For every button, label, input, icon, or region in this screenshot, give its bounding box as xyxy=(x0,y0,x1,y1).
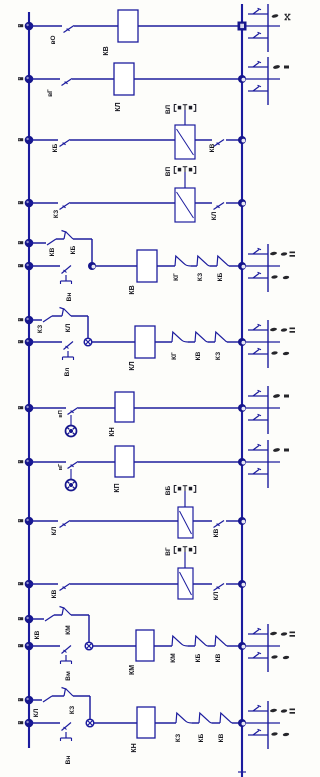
limit switch VL actuator row xyxy=(174,105,195,126)
svg-text:КМ: КМ xyxy=(129,665,136,675)
contact BG rung2 xyxy=(62,79,73,86)
svg-text:вГ: вГ xyxy=(58,463,64,470)
wire rung11 right xyxy=(227,645,242,647)
svg-text:КВ: КВ xyxy=(49,247,56,256)
wire xyxy=(188,341,195,343)
net label 11a xyxy=(18,617,23,620)
svg-text:КЛ: КЛ xyxy=(211,211,218,220)
relay coil KV2 xyxy=(137,250,157,282)
svg-text:Вм: Вм xyxy=(65,671,72,681)
wire xyxy=(192,722,199,724)
node 1 on right bus xyxy=(238,22,247,31)
svg-text:ВЛ: ВЛ xyxy=(165,105,172,115)
svg-text:КБ: КБ xyxy=(70,245,77,254)
node 7 on right bus xyxy=(238,404,246,412)
wire rung4 left xyxy=(29,202,58,204)
wire rung6 main left xyxy=(29,341,62,343)
wire rung6 right xyxy=(227,341,242,343)
svg-text:КГ: КГ xyxy=(173,273,180,281)
wire xyxy=(210,265,217,267)
node 10 on right bus xyxy=(238,580,246,588)
net label 4 xyxy=(18,201,23,204)
junction node rung12 xyxy=(86,719,94,727)
node 1 on left bus xyxy=(25,22,34,31)
node 6b on left bus xyxy=(25,338,34,347)
svg-text:КВ: КВ xyxy=(213,528,220,537)
relay coil KP xyxy=(115,446,134,477)
svg-text:КЗ: КЗ xyxy=(215,352,222,360)
drive switch contact vP rung7 xyxy=(68,408,79,415)
relay coil KN2 xyxy=(137,707,155,738)
wire rung5 branch start xyxy=(29,242,46,244)
interlock contact KV rung12 xyxy=(220,713,232,723)
wire rung12 branch start xyxy=(29,699,42,701)
wire rung2 left xyxy=(29,78,60,80)
stop pushbutton rung5 xyxy=(61,266,72,285)
switch contact column S12 xyxy=(246,701,295,749)
wire rung12 branch to corner xyxy=(73,695,90,697)
wire rung8 mid xyxy=(78,461,115,463)
wire rung6 branch drop xyxy=(87,316,89,342)
contact KV rung10 xyxy=(60,584,71,591)
wire xyxy=(208,645,215,647)
net label 1 xyxy=(18,24,23,27)
svg-text:КЛ: КЛ xyxy=(213,591,220,600)
stop pushbutton rung12 xyxy=(61,723,72,742)
relay coil KL xyxy=(114,63,134,95)
electromagnet VG xyxy=(178,568,193,599)
wire rung5 main left xyxy=(29,265,60,267)
node 5a on left bus xyxy=(25,239,34,248)
switch contact column S11 xyxy=(246,624,295,672)
wire rung6 branch start xyxy=(29,319,42,321)
interlock contact KZ rung5 xyxy=(197,256,210,266)
wire rung10 right xyxy=(226,583,242,585)
node 10 on left bus xyxy=(25,580,34,589)
wire rung3 after box xyxy=(195,139,212,141)
svg-text:КВ: КВ xyxy=(129,285,136,294)
interlock contact KV rung6 xyxy=(195,332,208,342)
left power bus L1 xyxy=(28,12,30,748)
node 8 on right bus xyxy=(238,458,246,466)
wire rung4 after box xyxy=(195,202,212,204)
svg-text:КВ: КВ xyxy=(51,589,58,598)
junction node rung5 xyxy=(88,262,96,270)
wire rung2 right xyxy=(134,78,242,80)
wire rung9 after box xyxy=(193,520,212,522)
node 6 on right bus xyxy=(238,338,246,346)
seal-in contact KV rung5 xyxy=(47,239,56,245)
node 7 on left bus xyxy=(25,404,34,413)
svg-text:КП: КП xyxy=(114,483,121,492)
interlock contact KZ2 rung6 xyxy=(215,332,227,342)
wire xyxy=(188,645,195,647)
wire rung10 after box xyxy=(193,583,212,585)
net label 7 xyxy=(18,406,23,409)
wire rung3 right xyxy=(226,139,242,141)
node 2 on right bus xyxy=(238,75,246,83)
wire rung9 right xyxy=(226,520,242,522)
net label 10 xyxy=(18,582,23,585)
contact BO rung1 xyxy=(64,26,75,33)
interlock contact KV2 rung11 xyxy=(215,636,227,646)
net label 11b xyxy=(18,644,23,647)
contact KZ rung4 xyxy=(60,203,71,210)
wire rung10 left xyxy=(29,583,58,585)
node 9 on left bus xyxy=(25,517,34,526)
drive wheel rung8 xyxy=(66,469,77,491)
wire rung6 to interlocks xyxy=(155,341,172,343)
svg-text:вГ: вГ xyxy=(47,89,54,97)
node 11b on left bus xyxy=(25,642,34,651)
interlock contact KB2 rung5 xyxy=(217,256,229,266)
svg-text:КБ: КБ xyxy=(198,733,205,742)
net label 12a xyxy=(18,698,23,701)
wire rung6 branch to corner xyxy=(71,315,88,317)
relay coil KN xyxy=(115,392,134,422)
wire rung7 right xyxy=(134,407,242,409)
seal-in contact KV rung11 xyxy=(45,615,54,621)
node 12a on left bus xyxy=(25,696,34,705)
relay coil KM xyxy=(136,630,154,661)
contact KL rung9 xyxy=(60,521,71,528)
node 12 on right bus xyxy=(238,719,246,727)
svg-text:КБ: КБ xyxy=(52,143,59,152)
relay coil KL2 xyxy=(135,326,155,358)
svg-text:КН: КН xyxy=(109,427,116,436)
node 5b on left bus xyxy=(25,262,34,271)
svg-text:КГ: КГ xyxy=(171,352,178,360)
svg-text:КВ: КВ xyxy=(103,46,110,55)
junction node rung6 xyxy=(84,338,92,346)
node 3 on left bus xyxy=(25,136,34,145)
right bus bottom tick xyxy=(238,771,246,773)
wire rung3 left xyxy=(29,139,58,141)
wire rung12 branch drop xyxy=(89,696,91,723)
switch contact column S2 xyxy=(246,57,289,105)
wire rung6 to coil xyxy=(92,341,135,343)
interlock contact KZ rung12 xyxy=(176,713,192,723)
svg-text:КВ: КВ xyxy=(218,733,225,742)
switch contact column S6 xyxy=(246,320,295,368)
wire rung5 branch to corner xyxy=(73,238,92,240)
wire rung5 to coil xyxy=(96,265,137,267)
svg-text:КН: КН xyxy=(131,743,138,752)
seal-in contact KZ rung6 xyxy=(43,316,52,322)
wire rung11 branch drop xyxy=(88,615,90,646)
net label 2 xyxy=(18,77,23,80)
electromagnet VP xyxy=(175,188,195,222)
junction node rung11 xyxy=(85,642,93,650)
net label 9 xyxy=(18,519,23,522)
svg-text:КВ: КВ xyxy=(215,653,222,662)
svg-text:КБ: КБ xyxy=(195,653,202,662)
wire xyxy=(191,265,197,267)
wire rung11 branch to corner xyxy=(71,614,89,616)
node 4 on left bus xyxy=(25,199,34,208)
node 12b on left bus xyxy=(25,719,34,728)
right power bus N xyxy=(241,4,243,777)
svg-text:КЛ: КЛ xyxy=(115,102,122,111)
contact KZ rung12 branch xyxy=(62,688,74,697)
wire rung12 branch mid xyxy=(52,695,64,697)
svg-text:Вн: Вн xyxy=(65,756,72,765)
node 4 on right bus xyxy=(238,199,246,207)
svg-text:КЗ: КЗ xyxy=(53,210,60,218)
svg-text:Вн: Вн xyxy=(66,293,73,302)
drive wheel rung7 xyxy=(66,415,77,437)
limit switch VP actuator row xyxy=(174,167,195,189)
node 5 on right bus xyxy=(238,262,246,270)
svg-text:КЗ: КЗ xyxy=(175,734,182,742)
interlock contact KB rung12 xyxy=(199,713,212,723)
wire rung7 mid xyxy=(78,407,115,409)
wire rung8 left xyxy=(29,461,66,463)
wire rung2 mid xyxy=(72,78,114,80)
svg-text:КЛ: КЛ xyxy=(65,323,72,332)
contact KB rung3 xyxy=(60,140,71,147)
wire rung1 left xyxy=(29,25,62,27)
svg-text:КБ: КБ xyxy=(217,272,224,281)
switch contact column S8 xyxy=(246,440,289,488)
interlock contact KB rung11 xyxy=(195,636,208,646)
wire rung8 right xyxy=(134,461,242,463)
wire rung1 mid xyxy=(74,25,118,27)
wire rung10 mid xyxy=(70,583,178,585)
wire rung5 right xyxy=(229,265,242,267)
wire rung4 mid xyxy=(70,202,175,204)
svg-text:КЛ: КЛ xyxy=(51,526,58,535)
svg-text:Вл: Вл xyxy=(64,368,71,377)
seal-in contact KL rung12 xyxy=(43,696,52,702)
node 8 on left bus xyxy=(25,458,34,467)
switch contact column S5 xyxy=(246,244,295,292)
net label 6a xyxy=(18,318,23,321)
node 11a on left bus xyxy=(25,615,34,624)
stop pushbutton rung11 xyxy=(61,646,72,665)
svg-text:ВБ: ВБ xyxy=(165,485,172,495)
svg-text:КВ: КВ xyxy=(209,143,216,152)
node 2 on left bus xyxy=(25,75,34,84)
wire rung11 to interlocks xyxy=(154,645,172,647)
contact KM rung11 branch xyxy=(60,607,72,616)
wire rung9 left xyxy=(29,520,58,522)
wire rung1 right xyxy=(138,25,238,27)
svg-text:КЗ: КЗ xyxy=(69,706,76,714)
wire rung9 mid xyxy=(70,520,178,522)
wire rung12 to coil xyxy=(94,722,137,724)
wire rung6 branch mid xyxy=(52,315,62,317)
stop pushbutton rung6 xyxy=(63,342,74,361)
interlock contact KM rung11 xyxy=(172,636,188,646)
node 9 on right bus xyxy=(238,517,246,525)
interlock contact KG rung5 xyxy=(175,256,191,266)
net label 5b xyxy=(18,264,23,267)
svg-text:КМ: КМ xyxy=(170,653,177,662)
net label 6b xyxy=(18,340,23,343)
wire rung3 mid xyxy=(70,139,175,141)
wire rung11 main left xyxy=(29,645,60,647)
wire rung4 right xyxy=(226,202,242,204)
net label 8 xyxy=(18,460,23,463)
svg-text:КЛ: КЛ xyxy=(33,708,40,717)
wire rung12 right xyxy=(232,722,242,724)
svg-text:вП: вП xyxy=(58,410,64,417)
electromagnet VL xyxy=(175,125,195,159)
electromagnet VB xyxy=(178,507,193,538)
svg-text:КВ: КВ xyxy=(195,351,202,360)
wire rung5 to interlocks xyxy=(157,265,175,267)
svg-text:КЛ: КЛ xyxy=(129,361,136,370)
interlock contact KG rung6 xyxy=(172,332,188,342)
wire rung11 branch mid xyxy=(54,614,62,616)
switch contact column S1 xyxy=(246,4,291,52)
contact KL rung4 xyxy=(214,203,225,210)
svg-text:ВП: ВП xyxy=(165,166,172,176)
contact KB rung5 branch xyxy=(62,231,74,240)
node 11 on right bus xyxy=(238,642,246,650)
limit switch VG actuator row xyxy=(174,547,195,569)
net label 5a xyxy=(18,241,23,244)
wire rung12 main left xyxy=(29,722,60,724)
contact KL rung6 branch xyxy=(60,308,72,317)
wire rung7 left xyxy=(29,407,66,409)
drive switch contact vG rung8 xyxy=(68,462,79,469)
svg-text:КЗ: КЗ xyxy=(197,273,204,281)
svg-text:КВ: КВ xyxy=(34,630,41,639)
contact KV rung3 xyxy=(214,140,225,147)
relay coil KB xyxy=(118,10,138,42)
wire rung11 branch start xyxy=(29,618,44,620)
node 3 on right bus xyxy=(238,136,246,144)
wire rung12 to interlocks xyxy=(155,722,176,724)
wire xyxy=(212,722,220,724)
wire rung11 to coil xyxy=(93,645,136,647)
svg-text:вО: вО xyxy=(50,35,57,44)
net label 12b xyxy=(18,721,23,724)
wire rung5 branch drop xyxy=(91,239,93,266)
wire rung5 branch mid xyxy=(56,238,64,240)
contact KL rung10 xyxy=(214,584,225,591)
switch contact column S7 xyxy=(246,386,289,434)
svg-text:ВГ: ВГ xyxy=(165,547,172,556)
wire xyxy=(208,341,215,343)
node 6a on left bus xyxy=(25,316,34,325)
svg-text:КЗ: КЗ xyxy=(37,325,44,333)
contact KV rung9 xyxy=(214,521,225,528)
net label 3 xyxy=(18,138,23,141)
svg-text:КМ: КМ xyxy=(65,625,72,634)
limit switch VB actuator row xyxy=(174,486,195,508)
